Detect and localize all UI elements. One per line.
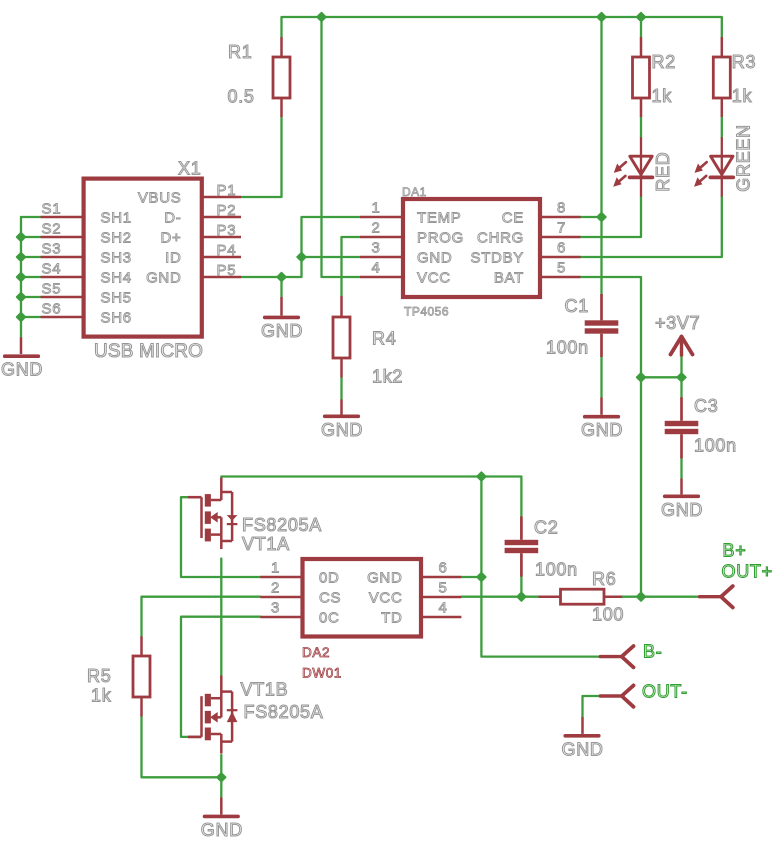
wire DA2 VCC pin 5 row [461,596,538,598]
svg-text:+3V7: +3V7 [655,313,700,333]
svg-text:GND: GND [562,739,604,759]
pins DA1 right 8-5 [541,217,581,277]
wire VT1A source to VT1B [220,559,222,676]
connector X1 USB MICRO body [84,179,202,337]
pin names DA1 right [470,210,524,287]
ground GND (R4) [340,400,343,415]
svg-text:P3: P3 [217,222,237,239]
pin SH1 [41,216,84,219]
op-amp U1 DA1 TP4056 body [403,199,540,297]
svg-text:CS: CS [319,590,341,607]
wire C3 bottom to GND [680,459,682,479]
wire VBUS to DA1 CE pin 8 and C1 [600,17,602,294]
wire DA2 OC pin 3 to VT1B gate [181,617,260,737]
svg-text:100n: 100n [546,337,589,357]
pin numbers DA1 8-5 [557,199,566,276]
svg-text:DA2: DA2 [302,645,330,660]
svg-text:1: 1 [371,199,380,216]
pins DA1 left 1-4 [360,217,402,277]
junction BAT / +3V7 [637,373,646,382]
svg-text:RED: RED [653,152,673,192]
svg-text:TP4056: TP4056 [404,305,449,319]
junction top rail / R2 [637,13,646,22]
power +3V7 arrow [671,336,693,357]
wire DA1 PROG pin 2 to R4 [342,237,361,296]
svg-text:SH1: SH1 [101,210,132,227]
ground GND (C1) [600,398,603,415]
svg-text:D+: D+ [161,229,182,246]
svg-text:GND: GND [581,420,623,440]
op-amp U2 DA2 DW01 body [303,559,422,637]
svg-text:B+: B+ [723,540,747,560]
wire DA2 GND pin 6 stub [461,576,481,578]
ground GND (P5) [280,297,283,316]
ground GND (battery minus) [220,797,223,814]
svg-text:FS8205A: FS8205A [242,515,322,535]
svg-text:CHRG: CHRG [477,230,524,247]
svg-text:OUT-: OUT- [642,682,688,702]
wire OUT- to GND [583,696,601,717]
svg-text:GREEN: GREEN [734,124,754,192]
junction S5 [17,293,26,302]
wire S6 stub [21,316,41,318]
ground GND (USB shield) [20,337,23,354]
junction drain rail / B- net [477,472,486,481]
svg-text:C1: C1 [565,296,589,316]
junction GND net at pin 3 row [297,253,306,262]
resistor R4 [333,296,350,378]
pin SH4 [41,276,84,279]
svg-text:S4: S4 [42,261,62,278]
wire R4 bottom to GND [340,378,342,400]
wire net VBUS top rail [282,17,722,37]
svg-text:TD: TD [381,610,402,627]
svg-text:6: 6 [439,559,448,576]
svg-text:SH6: SH6 [101,310,132,327]
svg-text:DA1: DA1 [402,185,427,199]
resistor R5 [133,636,150,716]
wire S3 stub [21,256,41,258]
svg-text:GND: GND [261,321,303,341]
wire S5 stub [21,296,41,298]
svg-text:0C: 0C [319,610,340,627]
svg-text:S6: S6 [42,301,62,318]
svg-text:P5: P5 [217,262,237,279]
ground GND (C3) [680,479,683,495]
pin names DA1 left [417,210,464,287]
svg-text:P2: P2 [217,202,237,219]
pin numbers DA2 1-3 [271,559,280,616]
svg-text:OUT+: OUT+ [722,561,773,581]
svg-text:6: 6 [557,239,566,256]
svg-text:3: 3 [371,239,380,256]
wire GND branch to DA1 GND pin 3 [302,256,361,258]
wire VT1A gate to DA2 OD pin 1 [181,497,260,577]
junction CE pin 8 [597,213,606,222]
junction top rail / VCC drop [317,13,326,22]
wire C1 bottom to GND [600,357,602,398]
junction GND net at P5 [277,273,286,282]
svg-text:R3: R3 [732,52,756,72]
LED RED (VD1) [613,137,673,196]
wire R2 bottom to LED RED [640,117,642,137]
pin SH2 [41,236,84,239]
svg-text:GND: GND [146,269,181,286]
ground GND (OUT-) [581,717,584,734]
resistor R2 [633,37,650,117]
svg-text:S2: S2 [42,221,62,238]
pin P4 [202,256,241,259]
svg-text:5: 5 [439,579,448,596]
wire USB shield bus S1-S6 [20,217,22,337]
svg-text:GND: GND [1,360,43,380]
svg-text:GND: GND [201,820,243,840]
flag OUT- [600,685,633,706]
wire CE pin 8 stub [581,216,602,218]
svg-text:BAT: BAT [494,270,524,287]
wire VT1B to GND [220,755,222,797]
svg-text:DW01: DW01 [302,665,342,680]
pin SH6 [41,316,84,319]
pin P2 [202,216,241,219]
svg-text:1k2: 1k2 [372,367,403,387]
wire LED GREEN to DA1 STDBY pin 6 [581,197,722,257]
svg-text:D-: D- [164,209,181,226]
svg-text:4: 4 [371,259,380,276]
wire R1 bottom to USB VBUS P1 [241,117,282,197]
svg-text:2: 2 [371,219,380,236]
svg-text:8: 8 [557,199,566,216]
wire P5 stub [240,276,242,278]
pin P5 [202,276,241,279]
wire DA2 CS pin 2 to R5 [142,597,261,637]
svg-text:SH5: SH5 [101,290,132,307]
svg-text:USB MICRO: USB MICRO [94,341,203,362]
wire VT1A drain rail to C2 [221,477,521,517]
svg-text:5: 5 [557,259,566,276]
svg-text:0.5: 0.5 [228,86,255,106]
resistor R6 [539,589,623,604]
transistor VT1B FS8205A [188,736,202,739]
wire LED RED to DA1 CHRG pin 7 [581,197,642,237]
pin names VBUS D- D+ ID GND [138,189,182,286]
svg-text:GND: GND [417,250,452,267]
svg-text:2: 2 [271,579,280,596]
flag B- [600,646,633,667]
svg-text:100n: 100n [694,436,737,456]
resistor R1 [273,37,290,117]
svg-text:GND: GND [321,420,363,440]
svg-text:100n: 100n [535,560,578,580]
svg-text:7: 7 [557,219,566,236]
svg-text:SH4: SH4 [101,270,132,287]
capacitor C2 [505,516,539,576]
wire BAT to +3V7 and C3 [641,376,682,378]
junction S4 [17,273,26,282]
svg-text:R6: R6 [592,569,616,589]
wire R6 to B+ junction [622,596,701,598]
wire +3V7 stub [680,357,682,378]
wire VBUS to DA1 VCC pin 4 [322,17,361,277]
wire GND net P5 to DA1 [241,217,360,277]
svg-text:GND: GND [661,500,703,520]
svg-text:C3: C3 [694,396,718,416]
junction S2 [17,233,26,242]
wire net B- vertical [481,477,600,657]
pin names DA2 right [367,570,402,627]
svg-text:1k: 1k [91,686,112,706]
wire S2 stub [21,236,41,238]
svg-text:PROG: PROG [417,230,464,247]
net labels P1-P5 [217,182,237,279]
pins DA2 left 1-3 [260,577,301,617]
svg-text:CE: CE [502,210,524,227]
flag B+ / OUT+ [700,586,733,607]
pin SH3 [41,256,84,259]
net labels S1-S6 [42,201,62,318]
wire S4 stub [21,276,41,278]
svg-text:X1: X1 [178,159,201,179]
junction S6 [17,313,26,322]
svg-text:0D: 0D [319,570,340,587]
junction B+ / BAT [637,592,646,601]
pin names SH1-SH6 [101,210,132,327]
wire net BAT from DA1 pin 5 [581,277,642,597]
svg-text:ID: ID [165,249,181,266]
wire R3 bottom to LED GREEN [721,117,723,137]
svg-text:1: 1 [271,559,280,576]
svg-text:1k: 1k [652,86,673,106]
pin numbers DA1 1-4 [371,199,380,276]
junction DA2 pin 6 / B- net [477,573,486,582]
junction S3 [17,253,26,262]
svg-text:SH2: SH2 [101,230,132,247]
svg-text:VCC: VCC [417,270,451,287]
svg-text:STDBY: STDBY [470,250,524,267]
svg-text:GND: GND [367,570,402,587]
svg-text:VCC: VCC [369,590,403,607]
pin names DA2 left [319,570,341,627]
svg-text:R5: R5 [87,666,111,686]
junction +3V7 / C3 [677,373,686,382]
svg-text:B-: B- [643,641,662,661]
svg-text:TEMP: TEMP [417,210,461,227]
wire R5 bottom to GND junction [142,717,222,778]
wire GND stub below junction [280,277,282,297]
svg-text:R4: R4 [372,329,396,349]
capacitor C3 [665,397,699,458]
pins DA2 right 6-4 [422,577,461,617]
resistor R3 [713,37,730,117]
junction R5 / VT1B / GND [217,773,226,782]
pin P3 [202,236,241,239]
svg-text:C2: C2 [534,518,558,538]
svg-text:FS8205A: FS8205A [244,702,324,722]
svg-text:VBUS: VBUS [138,189,182,206]
svg-text:4: 4 [439,599,448,616]
wire S1 stub [21,216,41,218]
svg-text:S5: S5 [42,281,62,298]
pin numbers DA2 6-4 [439,559,448,616]
svg-text:100: 100 [592,604,624,624]
wire C2 bottom [520,577,522,597]
svg-text:3: 3 [271,599,280,616]
svg-text:P4: P4 [217,242,237,259]
LED GREEN (VD2) [694,124,754,196]
wire R2 top [640,17,642,37]
transistor VT1A FS8205A [188,496,202,499]
svg-text:R2: R2 [652,52,676,72]
svg-text:S3: S3 [42,241,62,258]
svg-text:VT1A: VT1A [242,534,290,554]
svg-text:SH3: SH3 [101,250,132,267]
junction top rail / CE drop [597,13,606,22]
svg-text:P1: P1 [217,182,237,199]
svg-text:S1: S1 [42,201,62,218]
capacitor C1 [585,294,619,357]
svg-text:VT1B: VT1B [241,680,289,700]
svg-text:R1: R1 [228,42,252,62]
pin SH5 [41,296,84,299]
svg-text:1k: 1k [732,86,753,106]
junction C2 / VCC row [517,592,526,601]
wire C3 top [680,377,682,397]
pin P1 [202,196,241,199]
